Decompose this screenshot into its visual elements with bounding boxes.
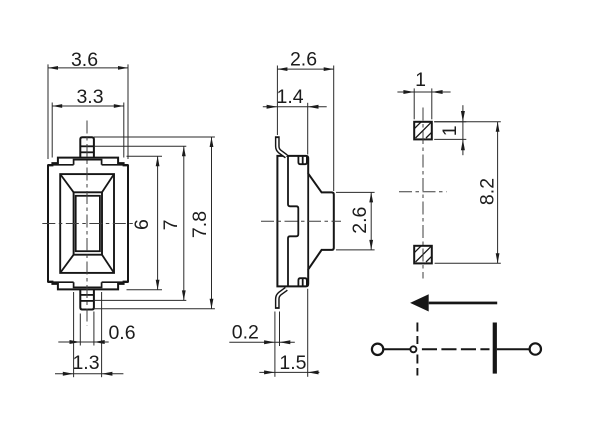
dim 0.2 line — [229, 341, 294, 343]
arrowheads 3.6 — [48, 66, 58, 70]
terminal circle right — [530, 343, 541, 354]
svg-text:1: 1 — [439, 125, 461, 136]
svg-text:2.6: 2.6 — [349, 207, 371, 234]
dim line 7.8 — [211, 137, 213, 309]
arrowheads 1.3 (outside) — [63, 372, 74, 376]
dim 0.6 extension lines — [79, 314, 81, 346]
arrowheads 1 top (outside) — [403, 90, 414, 94]
dim 8.2 line — [497, 122, 499, 263]
wire left — [384, 348, 411, 350]
dim 1 right line (vertical) — [462, 105, 464, 155]
dim 1.5 right extension line — [307, 289, 309, 377]
housing face vertical edge — [307, 174, 309, 270]
bottom pad hatch — [405, 236, 452, 262]
svg-text:6: 6 — [131, 219, 153, 230]
svg-text:1.4: 1.4 — [277, 86, 304, 108]
bottom pad — [414, 246, 432, 264]
dim 0.2 extension lines — [274, 312, 276, 377]
arrowheads 8.2 — [496, 122, 500, 132]
terminal circle left — [372, 344, 383, 355]
arrowheads 3.3 — [52, 104, 62, 108]
dashed link to contact bar — [422, 348, 490, 350]
front view centerlines — [42, 121, 134, 326]
svg-text:7: 7 — [160, 220, 182, 231]
bevel corner diagonals — [60, 174, 114, 273]
cover tab (ear) top right — [298, 156, 307, 164]
contact bar — [493, 323, 497, 374]
arrowheads 7.8 — [210, 137, 214, 147]
dim 2.6 right line — [370, 192, 372, 250]
arrowheads 0.2 (outside) — [264, 340, 275, 344]
arrowheads 2.6 right — [369, 192, 373, 202]
button window outer rectangle — [74, 192, 102, 254]
bottom gull-wing lead — [277, 289, 286, 309]
dim 1.3 line — [55, 373, 123, 375]
arrowheads 1.5 (outside) — [264, 370, 275, 374]
vertical centerline front view — [86, 121, 88, 326]
svg-text:1.3: 1.3 — [72, 352, 99, 374]
dimension texts front view — [71, 49, 211, 374]
top pad — [414, 122, 432, 140]
svg-text:7.8: 7.8 — [189, 211, 211, 238]
ext lines 6 / 7 / 7.8 bottom — [127, 289, 163, 291]
switch body outline (front view) — [48, 158, 128, 290]
svg-text:1.5: 1.5 — [279, 352, 306, 374]
side view horizontal centerline — [261, 220, 341, 222]
dim 3.3 extension lines — [51, 103, 53, 158]
svg-text:3.3: 3.3 — [76, 86, 103, 108]
wire right — [497, 348, 529, 350]
actuator dashed vertical line — [416, 323, 418, 376]
arrowheads 2.6 top — [277, 67, 287, 71]
dim 2.6 right (button) extension lines — [336, 191, 375, 193]
side view body outline — [277, 156, 333, 287]
cover tab (foot) bottom right — [298, 278, 307, 286]
arrowheads 0.6 (outside) — [70, 340, 81, 344]
dim 3.6 extension lines — [47, 64, 49, 159]
horizontal centerline land pattern — [399, 191, 447, 193]
base plate inner edge with center boss — [288, 156, 298, 287]
dim line 6 — [157, 156, 159, 290]
top pad hatch — [405, 112, 452, 138]
dimension texts side view — [232, 49, 371, 375]
dim 1.3 extension lines — [73, 292, 75, 377]
arrowheads 6 — [156, 156, 160, 166]
svg-text:0.6: 0.6 — [108, 322, 135, 344]
arrowheads 1 right (outside) — [461, 111, 465, 122]
land pattern centerlines — [399, 108, 447, 279]
dim line 7 — [183, 146, 185, 300]
svg-text:8.2: 8.2 — [476, 178, 498, 205]
dimension texts land pattern — [415, 69, 498, 205]
vertical centerline land pattern — [422, 108, 424, 279]
svg-text:2.6: 2.6 — [290, 49, 317, 71]
dim 1.5 line — [259, 371, 319, 373]
button window inner rectangle — [76, 196, 100, 251]
dim 2.6 top line — [277, 68, 333, 70]
svg-text:0.2: 0.2 — [232, 322, 259, 344]
bevel frame outer rectangle — [60, 174, 114, 273]
dim 0.6 line — [58, 341, 108, 343]
dim 3.6 line — [48, 67, 128, 69]
dim 2.6/1.4 extension lines — [276, 66, 278, 136]
dim 1.4 line — [263, 106, 327, 108]
actuation arrow — [410, 294, 497, 311]
dim 1 top extension lines — [413, 88, 415, 119]
svg-text:1: 1 — [415, 69, 426, 91]
dim 1 top line — [397, 91, 450, 93]
cover top face edge lines — [48, 160, 128, 288]
dim 8.2 extension lines — [434, 121, 501, 123]
arrowheads 1.4 (outside) — [267, 105, 278, 109]
dim 1 right extension lines — [434, 121, 466, 123]
bottom terminal nub — [80, 289, 94, 309]
top gull-wing lead — [277, 136, 286, 156]
moving contact circle — [410, 346, 416, 352]
svg-text:3.6: 3.6 — [71, 49, 98, 71]
horizontal centerline front view — [42, 223, 134, 225]
arrowheads 7 — [182, 146, 186, 156]
dim 3.3 line — [52, 105, 124, 107]
ext lines 7.8 / 7 / 6 top — [94, 136, 215, 138]
top terminal nub — [80, 137, 94, 157]
